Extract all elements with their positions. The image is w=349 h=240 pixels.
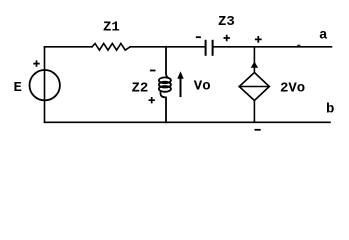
minus sign below dependent source [255,129,261,131]
svg-text:b: b [326,102,334,118]
voltage source E [30,70,60,100]
minus sign above Z2 [150,70,156,72]
capacitor Z3 [206,41,213,55]
svg-text:Z2: Z2 [132,80,149,96]
plus sign below Z2 [149,97,155,103]
plus sign of source E [33,60,39,66]
dependent source midline [239,86,269,88]
wire top-middle segment [130,46,204,48]
Vo arrow [177,71,183,79]
plus sign right of capacitor Z3 [224,35,230,41]
svg-text:a: a [319,28,328,44]
wire left vertical [44,47,46,123]
inductor Z2 [159,47,171,123]
wire top-left segment [45,46,93,48]
minus sign left of capacitor Z3 [196,36,201,38]
wire bottom segment [45,121,331,123]
dependent source 2Vo diamond [239,73,269,101]
svg-text:Vo: Vo [194,79,211,95]
wire top-right segment [214,46,332,48]
wire dependent-source branch top [253,47,255,73]
svg-text:Z1: Z1 [103,19,120,35]
plus sign above dependent source [255,36,262,43]
resistor Z1 [92,44,130,51]
svg-text:Z3: Z3 [218,14,235,30]
dependent source arrowhead [251,62,258,68]
svg-text:E: E [14,80,22,96]
junction tick on top wire [297,45,300,47]
svg-text:2Vo: 2Vo [280,80,305,96]
wire dependent-source branch bottom [253,101,255,123]
